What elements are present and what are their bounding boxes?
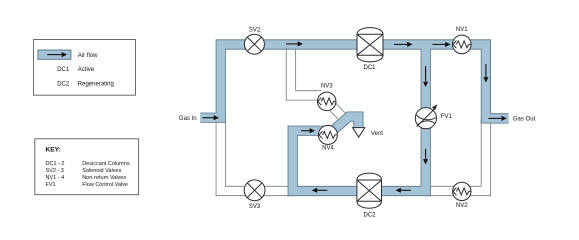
wire: inactive pipe from top pipe down to NV3 (fill pass) (291, 45, 321, 96)
flow arrow on Gas Out stub (489, 116, 507, 121)
svg-text:DC1: DC1 (363, 65, 376, 71)
flow arrow into NV4 (301, 128, 315, 133)
wire: inactive pipe Gas-In down through SV3 to regen corner (fill pass) (221, 118, 294, 191)
svg-text:Gas In: Gas In (179, 116, 197, 122)
wire: inactive pipe from top pipe down to NV3 (outline pass) (291, 45, 321, 96)
wire: inactive diagonal pipe NV3 to vent junction (outline pass) (328, 102, 343, 117)
wire: active pipe Gas In up over top through SV2, DC1, NV1 down to Gas Out (fill pass) (200, 45, 508, 119)
vent symbol (353, 128, 365, 138)
key box (35, 139, 139, 195)
flow arrow before NV1 (433, 42, 451, 47)
svg-text:Vent: Vent (371, 131, 383, 137)
svg-text:NV4: NV4 (322, 145, 334, 151)
wire: active regen pipe from DC1 junction down through FV1, left through DC2, up to NV4 (outline pass) (293, 45, 426, 192)
svg-text:FV1: FV1 (46, 182, 56, 188)
flow arrow down above FV1 (423, 66, 428, 87)
wire: inactive diagonal pipe NV3 to vent junction (fill pass) (328, 102, 343, 117)
legend air-flow swatch (38, 50, 71, 59)
flow arrow after DC1 (394, 42, 413, 47)
flow arrow leftward left of DC2 (312, 188, 328, 193)
svg-text:Active: Active (78, 67, 95, 73)
wire: inactive pipe from mid vertical through NV2 up to Gas-Out junction (fill pass) (426, 118, 486, 191)
svg-text:NV1 - 4: NV1 - 4 (46, 175, 65, 181)
svg-text:NV3: NV3 (321, 84, 333, 90)
svg-text:Gas Out: Gas Out (513, 117, 536, 123)
legend flow arrow (47, 52, 67, 57)
svg-text:DC2: DC2 (363, 213, 376, 219)
wire: active diagonal pipe NV4 to vent (outline pass) (328, 117, 359, 135)
solenoid valve SV2 (244, 34, 264, 54)
wire: active diagonal pipe NV4 to vent (fill pass) (328, 117, 359, 135)
flow control valve FV1 (415, 104, 437, 129)
svg-text:Air flow: Air flow (78, 53, 98, 59)
wire: active regen pipe from DC1 junction down through FV1, left through DC2, up to NV4 (fill pass) (293, 45, 426, 192)
legend box (34, 40, 136, 96)
wire: active pipe Gas In up over top through SV2, DC1, NV1 down to Gas Out (outline pass) (200, 45, 508, 119)
flow arrow down on right vertical (483, 64, 488, 83)
svg-text:FV1: FV1 (441, 114, 453, 120)
svg-text:NV2: NV2 (456, 203, 468, 209)
svg-text:DC1 - 2: DC1 - 2 (46, 161, 65, 167)
svg-text:Flow Control Valve: Flow Control Valve (82, 182, 128, 188)
svg-text:SV3: SV3 (249, 204, 261, 210)
non-return valve NV1 (453, 35, 472, 54)
non-return valve NV4 (318, 125, 337, 144)
flow arrow leftward right of DC2 (396, 188, 412, 193)
desiccant column DC1 (357, 28, 383, 62)
flow arrow after SV2 (286, 41, 303, 46)
svg-text:DC1: DC1 (57, 67, 70, 73)
wire: inactive pipe Gas-In down through SV3 to regen corner (outline pass) (221, 118, 294, 191)
svg-text:SV2: SV2 (249, 27, 261, 33)
non-return valve NV3 (317, 92, 336, 111)
svg-text:KEY:: KEY: (46, 147, 61, 154)
svg-text:Regenerating: Regenerating (78, 82, 114, 88)
svg-text:Non-return Valves: Non-return Valves (82, 175, 126, 181)
svg-text:Solenoid Valves: Solenoid Valves (82, 168, 121, 174)
svg-text:NV1: NV1 (456, 27, 468, 33)
desiccant column DC2 (357, 173, 382, 208)
svg-text:SV2 - 3: SV2 - 3 (46, 168, 64, 174)
svg-text:DC2: DC2 (57, 82, 70, 88)
non-return valve NV2 (453, 182, 471, 200)
wire: inactive pipe from mid vertical through NV2 up to Gas-Out junction (outline pass) (426, 118, 486, 191)
svg-text:Desiccant Columns: Desiccant Columns (82, 161, 130, 167)
flow arrow down below FV1 (423, 149, 428, 165)
flow arrow on Gas In stub (203, 115, 220, 120)
solenoid valve SV3 (244, 180, 265, 201)
